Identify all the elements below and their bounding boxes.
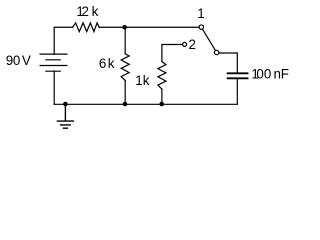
wire: 1k top up and over to terminal 2 bbox=[162, 45, 182, 62]
wire: capacitor bottom down to rail bbox=[236, 79, 238, 104]
wire: battery negative down to bottom rail bbox=[53, 71, 55, 104]
resistor 1k zigzag bbox=[158, 62, 166, 90]
terminal 1 circle bbox=[199, 25, 203, 29]
voltage source 90V battery plates bbox=[40, 54, 67, 71]
svg-text:90V: 90V bbox=[6, 53, 31, 68]
wire: 1k bottom branch bbox=[161, 89, 163, 104]
junction node A: top of 6k branch bbox=[122, 25, 127, 30]
svg-text:2: 2 bbox=[189, 37, 196, 52]
svg-text:100nF: 100nF bbox=[251, 67, 288, 82]
switch pole circle bbox=[214, 50, 218, 54]
ground symbol bbox=[57, 104, 73, 128]
wire: 6k top branch bbox=[124, 27, 126, 54]
switch arm from terminal 1 to pole bbox=[203, 30, 215, 51]
wire: switch pole right then down to capacitor bbox=[219, 53, 237, 72]
junction dot: 1k bottom on rail bbox=[159, 102, 164, 107]
junction dot: ground tap on bottom rail bbox=[63, 102, 68, 107]
resistor 12k zigzag bbox=[73, 23, 100, 32]
svg-text:6k: 6k bbox=[99, 56, 115, 71]
svg-text:12k: 12k bbox=[76, 4, 98, 19]
wire: top-left corner, battery positive up to 12k bbox=[54, 27, 72, 54]
junction dot: 6k bottom on rail bbox=[123, 102, 128, 107]
terminal 2 circle bbox=[183, 42, 187, 46]
svg-text:1k: 1k bbox=[135, 73, 150, 88]
capacitor 100nF plates bbox=[228, 73, 248, 78]
wire: 6k bottom branch bbox=[124, 81, 126, 105]
resistor 6k zigzag bbox=[121, 54, 129, 81]
wire: top rail from 12k to switch terminal 1 bbox=[99, 26, 198, 28]
wire: bottom rail bbox=[54, 103, 237, 105]
svg-text:1: 1 bbox=[197, 6, 204, 21]
